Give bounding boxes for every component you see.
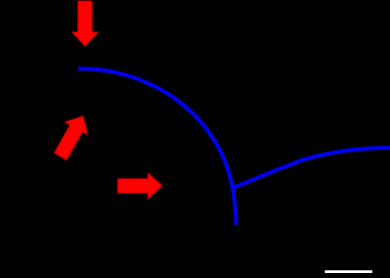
white bar bottom right bbox=[325, 270, 373, 273]
red right arrow bbox=[117, 172, 162, 199]
red down arrow bbox=[71, 1, 98, 47]
red diagonal up-right arrow bbox=[54, 116, 88, 161]
blue rising branch curve bbox=[233, 148, 390, 188]
blue descending trajectory curve with stem bbox=[78, 69, 236, 225]
